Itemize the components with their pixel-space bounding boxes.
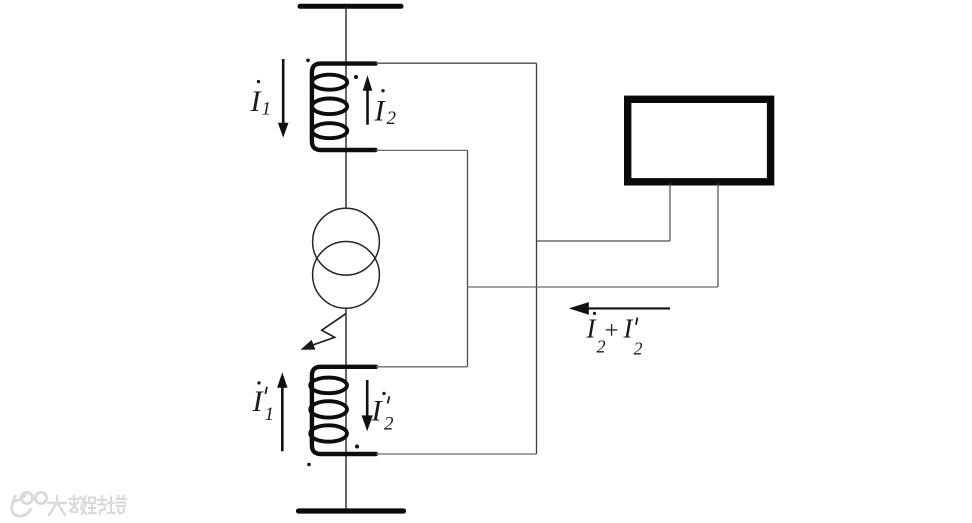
wire: right riser (x=536) (536, 63, 538, 454)
svg-text:1: 1 (265, 404, 275, 425)
wire: branch to relay left lead (537, 240, 671, 242)
polarity dot CT1 inner (354, 75, 358, 79)
transformer T1 circle lower (313, 242, 380, 309)
label I2' (371, 392, 395, 435)
label I1 (250, 80, 272, 120)
wire: CT1 top terminal to right riser (376, 62, 537, 64)
wire: right riser to CT2 bottom terminal (376, 453, 537, 455)
watermark glyph 境 (108, 496, 127, 514)
CT2 secondary winding (bottom coil) (310, 367, 376, 454)
relay KD box (628, 99, 771, 182)
svg-text:1: 1 (262, 99, 272, 120)
fault arrow (short-circuit zigzag) (314, 314, 346, 345)
polarity dot CT2 lower-left (307, 463, 311, 467)
polarity dot CT2 inner (355, 445, 359, 449)
label I2 (374, 89, 397, 129)
label I1' (252, 381, 275, 425)
top busbar (300, 4, 401, 9)
current arrow I1' (up) (281, 387, 284, 451)
wire: branch to relay right lead (468, 286, 719, 288)
wire: relay left lead (669, 183, 671, 241)
wire: main vertical, busbar to transformer (345, 7, 347, 208)
svg-text:+: + (605, 318, 619, 345)
watermark logo (12, 492, 47, 516)
wire: inner riser to CT2 top terminal (376, 366, 468, 368)
svg-text:2: 2 (387, 108, 397, 129)
watermark glyph 跨 (89, 496, 107, 514)
current arrow I1 (down) (282, 59, 285, 125)
transformer T1 circle upper (313, 208, 380, 275)
current arrow I2 (up) (366, 90, 369, 125)
bottom busbar (299, 508, 404, 513)
wire: inner riser (x=467) (467, 150, 469, 366)
watermark glyph 大 (48, 496, 66, 515)
current arrow I2' (down) (366, 380, 369, 416)
wire: relay right lead (717, 183, 719, 287)
CT1 secondary winding (top coil) (312, 64, 376, 150)
svg-text:2: 2 (384, 414, 394, 435)
label I2 + I2' (586, 312, 643, 359)
wire: CT1 bottom terminal to inner riser (376, 149, 468, 151)
sum current arrow (left) (587, 307, 670, 309)
watermark glyph 数 (69, 496, 87, 515)
wire: main vertical, transformer to bottom busbar (345, 308, 347, 509)
polarity dot CT1 upper-left (306, 59, 310, 63)
svg-text:2: 2 (634, 339, 643, 359)
